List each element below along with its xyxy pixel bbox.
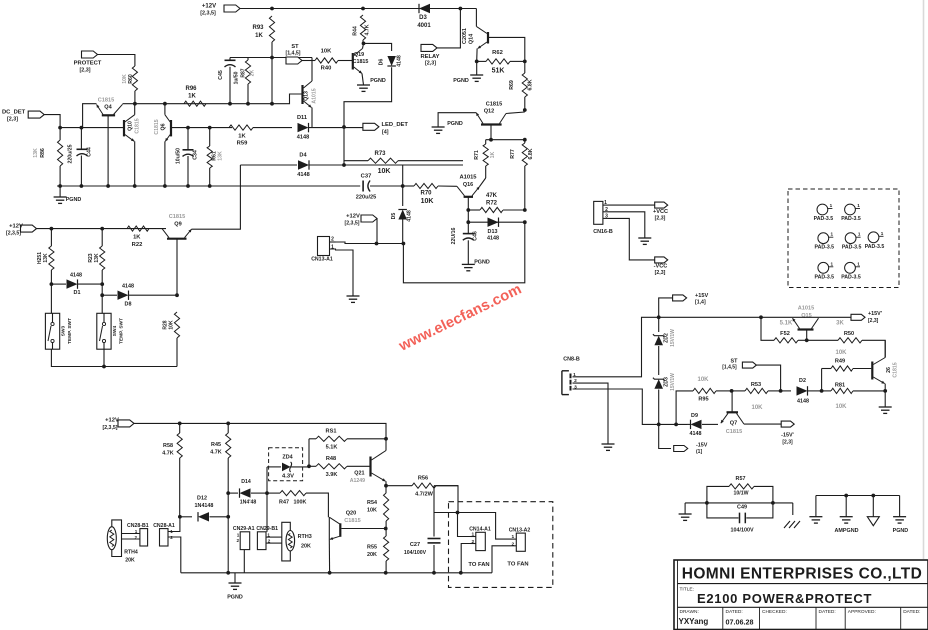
node R57 right: [771, 501, 775, 505]
svg-text:C46: C46: [473, 231, 479, 241]
svg-text:10K: 10K: [421, 198, 434, 205]
node R45 top: [226, 422, 230, 426]
svg-text:D3: D3: [419, 15, 427, 21]
svg-text:R57: R57: [736, 476, 746, 482]
wire CN13 row: [336, 242, 404, 244]
svg-text:TO FAN: TO FAN: [468, 562, 489, 568]
fan group dashed box: [449, 502, 553, 588]
pad PAD-3.5 at 850,268: [841, 261, 861, 280]
svg-text:R87: R87: [241, 68, 247, 77]
svg-text:Q16: Q16: [463, 182, 473, 188]
resistor R70 10K: [403, 183, 457, 205]
diode D2 4148: [781, 378, 822, 405]
svg-text:R53: R53: [751, 382, 761, 388]
node R62 left: [475, 60, 479, 64]
resistor R71 1K: [474, 140, 496, 178]
svg-text:YXYang: YXYang: [679, 617, 709, 626]
svg-text:D4: D4: [299, 153, 307, 159]
ground tie 1: [809, 496, 822, 524]
diode D11 4148: [297, 115, 309, 141]
svg-text:LED_DET: LED_DET: [382, 122, 409, 128]
node R49 drop: [820, 389, 824, 393]
resistor R58 4.7K: [162, 423, 182, 516]
svg-text:1K: 1K: [255, 33, 263, 39]
svg-text:PAD-3.5: PAD-3.5: [841, 216, 861, 222]
svg-text:10K: 10K: [751, 405, 763, 411]
svg-text:R70: R70: [420, 191, 432, 197]
resistor R23 13K: [88, 229, 105, 314]
svg-text:C1815: C1815: [135, 118, 141, 133]
ground PGND bottom: [227, 573, 243, 601]
resistor R53: [732, 382, 781, 411]
wire D4 to R73: [310, 164, 464, 166]
svg-text:R58: R58: [163, 443, 173, 449]
label TO FAN right: [507, 562, 528, 568]
wire F52 branch: [761, 317, 774, 340]
node D12 right: [226, 515, 230, 519]
ground CN8-B: [602, 444, 615, 450]
svg-text:4148: 4148: [297, 172, 309, 178]
svg-text:R44: R44: [353, 26, 359, 36]
svg-text:3K: 3K: [836, 321, 844, 327]
svg-text:4148: 4148: [122, 284, 134, 290]
svg-text:[2,3,5]: [2,3,5]: [6, 231, 21, 237]
svg-text:4.7K: 4.7K: [162, 451, 173, 457]
node Q4 base gnd: [106, 184, 110, 188]
resistor R62 51K: [477, 50, 525, 75]
svg-text:4148: 4148: [487, 236, 499, 242]
svg-text:4.7K: 4.7K: [210, 450, 221, 456]
thermistor RTH3 20K: [282, 522, 312, 561]
svg-text:+12V: +12V: [202, 4, 216, 10]
transistor Q13 A1015: [303, 58, 318, 128]
node R61 bottom: [208, 184, 212, 188]
svg-text:PGND: PGND: [893, 528, 909, 534]
svg-text:CN8-B: CN8-B: [563, 357, 580, 363]
resistor R28 10K: [163, 312, 180, 367]
wire ground rail y=186: [57, 185, 360, 187]
wire ZD4 column to D14 node: [266, 467, 268, 493]
node Q15 collector: [805, 338, 809, 342]
transistor Q21 A1249: [350, 439, 386, 486]
svg-text:RTH3: RTH3: [298, 534, 312, 540]
wire R51/R48 left drop: [308, 439, 310, 467]
svg-text:R48: R48: [326, 456, 336, 462]
node R57 left: [705, 501, 709, 505]
node C34 top: [186, 126, 190, 130]
svg-text:Q4: Q4: [104, 105, 112, 111]
wire RELAY to D3 node: [437, 9, 460, 48]
wire +15V stem: [659, 298, 673, 317]
wire Q12 base to divider: [486, 138, 527, 142]
transistor Q14 C2051: [462, 26, 525, 61]
node ST drop: [779, 389, 783, 393]
svg-text:2: 2: [605, 207, 608, 213]
svg-text:4.7K: 4.7K: [365, 24, 371, 35]
svg-text:20K: 20K: [125, 557, 135, 563]
svg-text:2: 2: [511, 541, 514, 547]
svg-text:Q12: Q12: [484, 109, 495, 115]
node C44 top: [80, 126, 84, 130]
svg-text:DATED:: DATED:: [726, 609, 743, 615]
node R73 left / LED_DET column: [342, 127, 346, 167]
ground CN16: [638, 238, 651, 244]
diode D13 4148: [487, 218, 499, 242]
diode D3 4001: [417, 4, 431, 29]
node R86 top: [58, 126, 62, 130]
svg-text:10K: 10K: [697, 377, 709, 383]
ground PGND Q14: [453, 61, 483, 84]
svg-text:[1,4,5]: [1,4,5]: [286, 51, 301, 57]
svg-text:R60: R60: [128, 74, 134, 84]
svg-text:C1815: C1815: [154, 119, 160, 134]
title company name: [682, 566, 923, 583]
svg-text:R81: R81: [835, 383, 845, 389]
pad PAD-3.5 at 874,237: [865, 231, 885, 250]
svg-text:1K: 1K: [188, 94, 196, 100]
svg-text:[2,3]: [2,3]: [655, 216, 666, 222]
wire DC_DET drop: [44, 115, 60, 128]
svg-text:[1,4]: [1,4]: [695, 300, 706, 306]
node Q10 emitter gnd: [133, 184, 137, 188]
svg-text:TO FAN: TO FAN: [507, 562, 528, 568]
resistor R69 6.8K: [509, 61, 534, 110]
svg-text:CN13-A1: CN13-A1: [311, 257, 333, 263]
wire +15V rail: [659, 316, 796, 318]
svg-text:1: 1: [831, 261, 834, 266]
svg-text:A1015: A1015: [459, 175, 477, 181]
svg-text:R55: R55: [367, 545, 377, 551]
watermark www.elecfans.com: [396, 281, 524, 355]
title drawn by: [679, 617, 709, 626]
svg-text:20K: 20K: [367, 552, 377, 558]
node Q7 base / R53 left: [730, 389, 734, 393]
node R62 right: [523, 60, 527, 64]
svg-text:C45: C45: [218, 70, 224, 80]
pad PAD-3.5 at 823,238: [815, 232, 835, 251]
connector CN29-A1: [233, 526, 255, 573]
svg-text:R69: R69: [509, 80, 515, 90]
svg-text:+15V': +15V': [868, 311, 882, 317]
svg-text:2: 2: [471, 539, 474, 545]
svg-text:Q19: Q19: [354, 52, 364, 58]
wire D11 to LED_DET node: [309, 125, 363, 129]
wire CN16 pin1 to +VCC: [608, 204, 657, 206]
connector CN14-A1: [459, 527, 491, 575]
svg-text:2: 2: [134, 535, 137, 540]
wire R93 bottom to node: [271, 42, 273, 104]
svg-text:D5: D5: [391, 213, 397, 220]
svg-text:1u/50: 1u/50: [234, 71, 240, 84]
svg-text:D13: D13: [488, 229, 498, 235]
pad PAD-3.5 at 822,210: [814, 203, 834, 222]
net ST mid flag: [722, 359, 756, 371]
capacitor C49 104/100V: [707, 503, 773, 534]
svg-text:CN28-B1: CN28-B1: [127, 523, 149, 529]
label TO FAN left: [468, 562, 489, 568]
svg-text:4.3V: 4.3V: [282, 474, 294, 480]
net DC_DET flag: [2, 110, 44, 123]
wire CN16 pin3 to -VCC: [608, 218, 657, 260]
wire +12V top rail: [240, 8, 476, 10]
wire bottom rail: [181, 572, 492, 574]
svg-text:PAD-3.5: PAD-3.5: [841, 274, 861, 280]
svg-text:C1815: C1815: [353, 59, 369, 65]
svg-text:2: 2: [331, 237, 334, 243]
svg-text:1: 1: [831, 232, 834, 237]
svg-text:PGND: PGND: [447, 121, 463, 127]
title date: [726, 618, 754, 627]
resistor R40 10K: [302, 49, 352, 72]
svg-text:4148: 4148: [297, 135, 309, 141]
svg-text:+12V: +12V: [105, 418, 119, 424]
svg-text:10K: 10K: [835, 404, 847, 410]
svg-text:Q14: Q14: [469, 34, 475, 44]
svg-text:DC_DET: DC_DET: [2, 110, 26, 116]
svg-text:47K: 47K: [486, 193, 498, 199]
svg-text:E2100 POWER&PROTECT: E2100 POWER&PROTECT: [697, 591, 872, 606]
wire C37 to R70 node: [370, 185, 403, 187]
diode D9 4148: [687, 413, 718, 437]
svg-text:+VCC: +VCC: [653, 209, 668, 215]
node Q6 collector: [163, 102, 167, 106]
svg-text:104/100V: 104/100V: [730, 528, 753, 534]
svg-text:R96: R96: [185, 86, 197, 92]
resistor R93: [252, 16, 274, 42]
wire fan CN14 feed: [458, 513, 471, 537]
svg-text:DATED:: DATED:: [819, 609, 836, 615]
resistor R87 2K: [241, 58, 256, 104]
svg-text:SW3: SW3: [61, 325, 67, 336]
svg-text:RTH4: RTH4: [124, 550, 138, 556]
svg-text:5.1K: 5.1K: [780, 321, 793, 327]
resistor R51 5.1K: [309, 429, 386, 451]
svg-text:1: 1: [830, 203, 833, 208]
svg-text:[2,3,5]: [2,3,5]: [103, 425, 118, 431]
svg-text:PGND: PGND: [370, 78, 386, 84]
net LED_DET flag: [363, 122, 408, 136]
net +15V' flag: [851, 311, 882, 324]
svg-text:A1015: A1015: [312, 88, 318, 103]
wire ST to R53 node: [756, 365, 780, 391]
svg-text:1: 1: [857, 203, 860, 208]
svg-text:51K: 51K: [492, 68, 505, 75]
net -15V' flag: [781, 421, 794, 445]
capacitor C34 10u/50: [176, 128, 199, 186]
connector CN16-B: [593, 200, 613, 235]
node C27 top rail: [456, 511, 460, 515]
svg-text:ZD4: ZD4: [282, 455, 292, 461]
wire detector base rail y=127.6: [60, 127, 123, 129]
resistor R47 100K: [267, 491, 328, 518]
svg-text:1K: 1K: [490, 151, 496, 158]
resistor R251 13K: [37, 229, 54, 314]
svg-text:CN14-A1: CN14-A1: [469, 527, 491, 533]
wire D6 to LED_DET node: [344, 67, 392, 127]
svg-text:1: 1: [858, 232, 861, 237]
svg-text:15V/1W: 15V/1W: [670, 329, 676, 347]
net RELAY flag: [420, 44, 439, 66]
svg-text:D2: D2: [799, 378, 806, 384]
svg-text:[2,3]: [2,3]: [782, 440, 793, 446]
node C44 bottom: [80, 184, 84, 188]
svg-text:PAD-3.5: PAD-3.5: [814, 216, 834, 222]
wire fan feed rail: [434, 512, 458, 514]
wire Q15 emitter rail to +15V': [796, 316, 851, 318]
capacitor C27 104/100V: [404, 513, 441, 573]
svg-text:4148: 4148: [797, 399, 809, 405]
node Q6 emitter gnd: [163, 184, 167, 188]
svg-text:Q7: Q7: [730, 421, 737, 427]
wire feedback loop to D13 node: [403, 222, 524, 283]
wire R56 to fan box: [434, 486, 458, 513]
svg-text:26: 26: [886, 367, 892, 373]
svg-text:TITLE:: TITLE:: [680, 587, 694, 593]
node R72 right: [523, 208, 527, 212]
svg-text:RS1: RS1: [326, 429, 337, 435]
svg-text:1K: 1K: [238, 134, 246, 140]
wire CN8-B pin2 to ground: [573, 383, 609, 444]
svg-text:R73: R73: [374, 151, 386, 157]
svg-text:+12V: +12V: [346, 214, 360, 220]
net -15V(1) flag: [674, 443, 708, 455]
connector CN8-B: [562, 357, 580, 395]
wire Q12 emitter to PGND: [438, 113, 476, 127]
svg-text:C1815: C1815: [344, 518, 360, 524]
wire base rail y=103.7: [123, 94, 303, 104]
svg-text:[2,3]: [2,3]: [425, 61, 436, 67]
svg-text:13K: 13K: [33, 148, 39, 158]
svg-text:1: 1: [135, 529, 138, 534]
pad PAD-3.5 at 823,268: [815, 261, 835, 280]
svg-text:PROTECT: PROTECT: [74, 61, 102, 67]
svg-text:PGND: PGND: [66, 197, 82, 203]
svg-text:C1815: C1815: [726, 429, 742, 435]
svg-text:4001: 4001: [417, 23, 431, 29]
wire PROTECT to R60: [98, 55, 135, 67]
node Q20 emitter rail: [328, 571, 332, 575]
svg-text:R86: R86: [40, 148, 46, 158]
node R51 right: [384, 437, 388, 441]
svg-text:Q10: Q10: [128, 121, 134, 131]
resistor R60: [122, 66, 138, 91]
svg-text:2K: 2K: [250, 69, 256, 76]
wire CN16 pin2 to gnd: [608, 212, 645, 238]
svg-text:R50: R50: [844, 331, 854, 337]
node R54/R55 junction: [384, 527, 388, 531]
wire top rail to Q14 collector: [475, 9, 477, 27]
svg-text:4148: 4148: [70, 273, 82, 279]
zener box ZD4: [269, 448, 303, 481]
resistor R86: [33, 128, 63, 186]
svg-text:[4]: [4]: [382, 130, 389, 136]
node D13 left: [466, 220, 470, 224]
resistor R95 10K: [693, 377, 732, 403]
svg-text:+15V: +15V: [695, 293, 708, 299]
diode D5 4148 vertical: [391, 186, 413, 244]
transistor Q10 C1815: [124, 104, 141, 186]
svg-text:3: 3: [605, 213, 608, 219]
ground tie PGND: [893, 496, 909, 535]
node R58 top: [178, 422, 182, 426]
node R48 left: [307, 464, 311, 468]
svg-text:C1815: C1815: [893, 362, 899, 377]
svg-text:1K: 1K: [133, 235, 141, 241]
svg-text:TEMP. SWT: TEMP. SWT: [119, 318, 125, 344]
node C45 bottom: [228, 102, 232, 106]
capacitor C44 220u/25: [68, 128, 93, 186]
node Q12 collector: [523, 108, 527, 112]
resistor R73 10K: [344, 151, 463, 175]
svg-text:R47: R47: [279, 500, 289, 506]
wire R95 branch: [676, 391, 693, 425]
svg-text:Q9: Q9: [174, 222, 181, 228]
svg-text:1: 1: [511, 534, 514, 540]
resistor R22 1K: [127, 226, 149, 248]
transistor Q20 C1815: [329, 511, 385, 573]
svg-text:2: 2: [170, 535, 173, 540]
diode D1 4148: [50, 273, 105, 297]
net +12V lower flag: [103, 418, 135, 431]
svg-text:D1: D1: [74, 290, 81, 296]
svg-text:Q20: Q20: [346, 511, 357, 517]
svg-text:C1815: C1815: [169, 214, 185, 220]
svg-text:D6: D6: [379, 59, 385, 66]
wire D13 row: [468, 210, 525, 222]
connector CN13-A2: [492, 527, 530, 573]
svg-text:6.8K: 6.8K: [528, 79, 534, 90]
svg-text:R45: R45: [211, 442, 221, 448]
wire +12V lower rail: [134, 423, 386, 438]
node D14 left: [226, 491, 230, 495]
node F52 branch: [759, 315, 763, 319]
net PROTECT flag: [74, 51, 102, 74]
svg-text:C27: C27: [410, 542, 420, 548]
svg-text:3: 3: [574, 385, 577, 391]
svg-text:[2,3]: [2,3]: [868, 318, 879, 324]
svg-text:10K: 10K: [378, 168, 391, 175]
thermistor RTH4 20K: [107, 520, 138, 563]
net +12V mid flag: [345, 214, 378, 227]
svg-text:[2,3,5]: [2,3,5]: [345, 221, 360, 227]
node R93 top: [270, 7, 274, 11]
transistor Q4 C1815: [97, 98, 123, 187]
resistor R45 4.7K: [210, 423, 230, 572]
ground PGND Q12: [432, 121, 463, 133]
wire C45-R87 top rail y=57.5: [230, 56, 312, 60]
svg-text:104/100V: 104/100V: [404, 550, 427, 556]
zener ZD2 15V/1W: [653, 317, 676, 375]
node C27 bottom: [432, 571, 436, 575]
ground tie triangle: [867, 496, 879, 526]
resistor R59 1K: [229, 125, 253, 147]
net +12V left flag: [6, 224, 37, 237]
connector CN28-A1: [153, 517, 181, 573]
pad PAD-3.5 at 850,210: [841, 203, 861, 222]
svg-text:R77: R77: [510, 149, 516, 159]
capacitor C37 220u/25: [356, 174, 377, 201]
node R23 top: [100, 227, 104, 231]
svg-text:A1015: A1015: [798, 306, 814, 312]
resistor R56 4.7/2W: [386, 476, 458, 498]
diode D8 4148: [100, 284, 179, 308]
svg-text:R59: R59: [237, 141, 248, 147]
svg-text:Q6: Q6: [161, 123, 167, 130]
ground R57 left: [679, 503, 692, 521]
node C34 bottom: [186, 184, 190, 188]
svg-text:PGND: PGND: [453, 78, 469, 84]
svg-text:+12V: +12V: [9, 224, 23, 230]
